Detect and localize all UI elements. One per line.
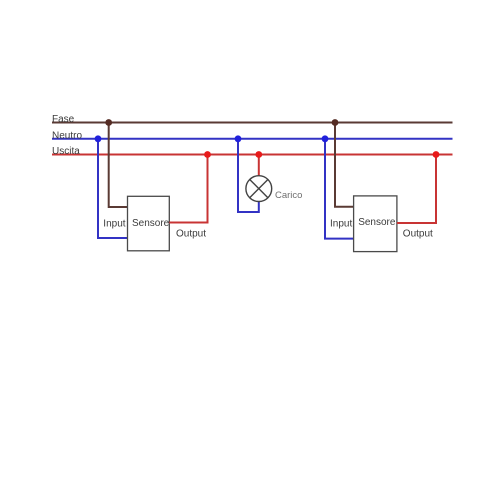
junction dot Neutro / lamp xyxy=(235,135,242,142)
wire right sensor phase input (Fase to Sensore2) xyxy=(335,123,354,207)
wire lamp feed (Uscita to Carico top) xyxy=(258,155,260,176)
wire left sensor output to Uscita xyxy=(169,155,207,223)
svg-text:Sensore: Sensore xyxy=(358,217,396,228)
junction dot Uscita / left sensor output xyxy=(204,151,211,158)
wire left sensor phase input (Fase to Sensore1) xyxy=(109,123,128,208)
svg-text:Carico: Carico xyxy=(275,190,302,201)
svg-text:Output: Output xyxy=(403,229,433,240)
wire Uscita bus (output line) xyxy=(52,154,453,156)
junction dot Neutro / right sensor xyxy=(322,135,329,142)
junction dot Fase / left sensor xyxy=(105,119,112,126)
junction dot Uscita / lamp xyxy=(255,151,262,158)
svg-text:Fase: Fase xyxy=(52,114,75,125)
svg-text:Uscita: Uscita xyxy=(52,146,80,157)
svg-text:Neutro: Neutro xyxy=(52,130,82,141)
wire left sensor neutral input (Neutro to Sensore1) xyxy=(98,139,128,238)
wire right sensor neutral input (Neutro to Sensore2) xyxy=(325,139,354,239)
svg-text:Output: Output xyxy=(176,228,206,239)
sensor box U1 Sensore (left) xyxy=(128,196,170,251)
wire Neutro bus (neutral line) xyxy=(52,138,453,140)
junction dot Fase / right sensor xyxy=(332,119,339,126)
svg-text:Sensore: Sensore xyxy=(132,218,170,229)
svg-text:Input: Input xyxy=(330,219,352,230)
svg-text:Input: Input xyxy=(103,218,125,229)
sensor box U2 Sensore (right) xyxy=(354,196,397,252)
lamp Carico (circle with X) xyxy=(246,176,272,202)
wire right sensor output to Uscita xyxy=(397,155,436,224)
junction dot Uscita / right sensor output xyxy=(433,151,440,158)
wire Fase bus (phase line) xyxy=(52,122,453,124)
wire lamp neutral (Neutro to Carico bottom) xyxy=(238,139,259,212)
junction dot Neutro / left sensor xyxy=(95,135,102,142)
